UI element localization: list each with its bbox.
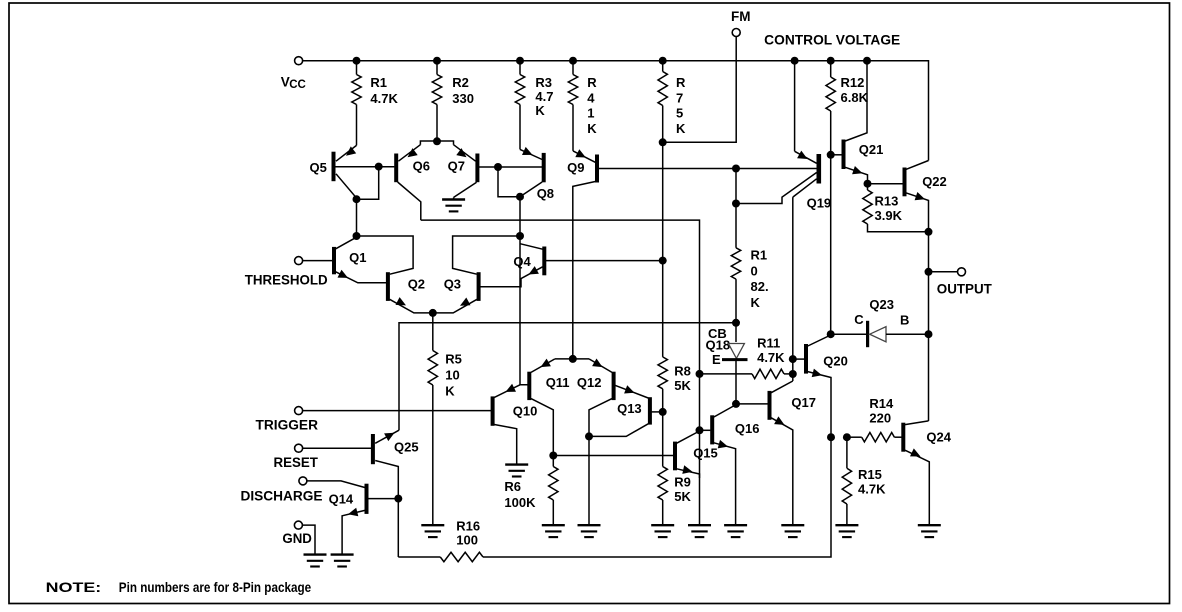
svg-text:4: 4 [587, 90, 595, 105]
svg-text:4.7K: 4.7K [757, 350, 785, 365]
svg-text:K: K [445, 384, 455, 399]
ground Q15/Q6-column [688, 525, 711, 537]
resistor R10 [731, 165, 768, 343]
transistor Q24 [901, 421, 951, 525]
resistor R12 [826, 57, 869, 335]
svg-text:100K: 100K [504, 495, 536, 510]
svg-text:Q10: Q10 [513, 404, 538, 419]
transistor Q21 [831, 57, 884, 184]
ground R5 [421, 525, 444, 537]
wire Q19 collector column [789, 197, 797, 381]
svg-text:K: K [587, 121, 597, 136]
svg-text:R: R [676, 75, 686, 90]
svg-text:100: 100 [456, 532, 478, 547]
resistor R4 [568, 57, 597, 151]
svg-text:K: K [535, 103, 545, 118]
transistor Q19 [736, 57, 831, 211]
svg-text:R9: R9 [674, 474, 691, 489]
svg-text:Q5: Q5 [310, 160, 327, 175]
transistor Q25 [371, 430, 419, 557]
resistor R8 [658, 261, 692, 416]
svg-text:B: B [900, 313, 909, 328]
svg-text:Q6: Q6 [413, 159, 430, 174]
svg-text:Q1: Q1 [349, 250, 366, 265]
node R2-Q6-Q7 [420, 137, 453, 145]
svg-text:CONTROL VOLTAGE: CONTROL VOLTAGE [764, 33, 900, 48]
ground Q17 [781, 525, 804, 537]
svg-text:6.8K: 6.8K [841, 90, 869, 105]
svg-text:R15: R15 [858, 467, 882, 482]
wire Q7-Q8 base link [494, 163, 524, 201]
svg-text:Q17: Q17 [791, 395, 816, 410]
svg-text:5K: 5K [674, 489, 691, 504]
resistor R1 [352, 57, 399, 146]
node Q11-Q12 emitters [555, 355, 589, 363]
transistor Q11 [527, 359, 569, 456]
svg-text:R5: R5 [445, 351, 462, 366]
svg-text:4.7K: 4.7K [858, 481, 886, 496]
transistor Q20 [793, 335, 848, 437]
svg-text:R8: R8 [674, 364, 691, 379]
ground Q16 [724, 525, 747, 537]
label CONTROL VOLTAGE [764, 33, 900, 48]
wire Q8 emitter column [516, 197, 528, 385]
terminal RESET [274, 444, 372, 470]
resistor R6 [504, 452, 558, 526]
resistor R5 [428, 313, 462, 525]
svg-text:R1: R1 [751, 247, 768, 262]
svg-text:Q21: Q21 [859, 142, 884, 157]
svg-text:R2: R2 [452, 75, 469, 90]
svg-text:Q16: Q16 [735, 421, 760, 436]
svg-text:DISCHARGE: DISCHARGE [241, 489, 323, 504]
svg-text:Q25: Q25 [394, 440, 419, 455]
svg-text:1: 1 [587, 106, 594, 121]
ground Q24 [918, 525, 941, 537]
svg-text:FM: FM [731, 9, 751, 24]
svg-text:Q4: Q4 [513, 254, 531, 269]
node Q16 collector / Q17 base [732, 400, 768, 408]
svg-text:Q19: Q19 [807, 196, 832, 211]
transistor Q14 [329, 484, 403, 555]
wire Q12 collector to ground column [588, 436, 590, 525]
svg-text:220: 220 [869, 411, 891, 426]
ground R6 [542, 525, 565, 537]
svg-text:R3: R3 [535, 75, 552, 90]
transistor Q15 [673, 431, 718, 478]
terminal TRIGGER [256, 407, 492, 433]
ground Q10 [505, 465, 528, 477]
svg-text:82.: 82. [751, 279, 769, 294]
terminal FM [663, 9, 751, 142]
svg-text:0: 0 [751, 263, 758, 278]
svg-text:CC: CC [289, 79, 306, 91]
transistor Q1 [332, 237, 386, 283]
svg-text:Q2: Q2 [408, 277, 425, 292]
svg-text:4.7K: 4.7K [370, 91, 398, 106]
svg-text:Q18: Q18 [706, 337, 731, 352]
terminal GND [282, 521, 315, 555]
ground GND terminal [304, 555, 327, 567]
svg-text:R11: R11 [757, 336, 780, 351]
resistor R14 [827, 396, 902, 442]
transistor Q12 [577, 359, 616, 437]
svg-text:Q13: Q13 [617, 401, 642, 416]
svg-text:R: R [587, 75, 597, 90]
ground Q12 column [578, 525, 601, 537]
svg-text:Q14: Q14 [329, 492, 354, 507]
svg-text:THRESHOLD: THRESHOLD [245, 273, 328, 288]
svg-text:Q23: Q23 [869, 297, 894, 312]
svg-text:Pin numbers are for 8-Pin pack: Pin numbers are for 8-Pin package [119, 580, 312, 595]
resistor R7 [658, 57, 686, 261]
transistor Q8 [520, 147, 554, 201]
svg-text:Q7: Q7 [448, 159, 465, 174]
transistor Q17 [768, 381, 816, 525]
terminal THRESHOLD [245, 257, 333, 288]
transistor Q10 [491, 384, 538, 465]
svg-text:Q15: Q15 [693, 446, 718, 461]
node Q15 collector / Q16 base [696, 426, 711, 434]
transistor Q2 [386, 272, 433, 313]
wire bottom rail [398, 437, 831, 557]
svg-text:R13: R13 [875, 194, 899, 209]
terminal DISCHARGE [241, 477, 365, 504]
svg-text:330: 330 [452, 91, 474, 106]
transistor Q13 [585, 385, 663, 440]
node Q2-Q3 emitters [429, 309, 437, 317]
transistor Q6 [394, 145, 430, 220]
transistor Q7 [448, 145, 543, 198]
svg-text:RESET: RESET [274, 455, 319, 470]
wire Q6 collector to lower-right column [421, 220, 700, 525]
transistor Q5 [310, 145, 395, 236]
svg-text:R12: R12 [841, 75, 865, 90]
resistor R9 [658, 412, 692, 525]
svg-text:E: E [712, 352, 721, 367]
svg-text:5: 5 [676, 106, 683, 121]
svg-text:TRIGGER: TRIGGER [256, 418, 319, 433]
note text [46, 580, 312, 595]
transistor Q3 [433, 236, 520, 313]
wire Q5col to Q1/Q2 collectors [353, 232, 414, 274]
svg-text:Q8: Q8 [537, 186, 554, 201]
svg-text:NOTE:: NOTE: [46, 580, 101, 595]
diode-connected Q18 (CB-E) [706, 326, 748, 404]
transistor Q16 [710, 405, 759, 526]
svg-text:Q12: Q12 [577, 375, 602, 390]
svg-text:Q20: Q20 [823, 354, 848, 369]
svg-text:C: C [854, 312, 864, 327]
svg-text:4.7: 4.7 [535, 89, 553, 104]
svg-text:Q22: Q22 [922, 174, 947, 189]
svg-text:K: K [676, 121, 686, 136]
ground R15 [835, 525, 858, 537]
resistor R13 [863, 180, 933, 236]
wire R6 to Q15 base [553, 455, 673, 457]
svg-text:10: 10 [445, 368, 459, 383]
Vcc terminal [281, 57, 306, 91]
svg-text:Q11: Q11 [546, 375, 570, 390]
ground Q7 collector [442, 197, 465, 211]
ground Q14 [331, 555, 354, 567]
resistor R2 [432, 57, 474, 141]
resistor R11 [696, 336, 793, 379]
svg-text:K: K [751, 295, 761, 310]
svg-text:7: 7 [676, 90, 683, 105]
transistor Q22 [868, 161, 947, 422]
wire Vcc rail [303, 61, 929, 161]
wire Q5 collector-base loop [353, 163, 383, 204]
transistor Q9 [567, 149, 817, 359]
ground R9 [651, 525, 674, 537]
svg-text:5K: 5K [674, 378, 691, 393]
svg-text:Q9: Q9 [567, 160, 584, 175]
transistor Q4 [480, 244, 666, 287]
diode Q23 [827, 297, 933, 347]
svg-text:3.9K: 3.9K [875, 208, 903, 223]
resistor R15 [842, 437, 886, 525]
resistor R16 [440, 519, 483, 562]
svg-text:R14: R14 [869, 396, 894, 411]
svg-text:OUTPUT: OUTPUT [937, 281, 993, 296]
wire comparator output node [399, 323, 736, 430]
svg-text:R1: R1 [370, 75, 387, 90]
svg-text:GND: GND [282, 531, 312, 546]
terminal OUTPUT [925, 268, 993, 297]
resistor R3 [515, 57, 553, 150]
svg-text:R6: R6 [504, 479, 521, 494]
svg-text:Q3: Q3 [444, 277, 461, 292]
svg-text:Q24: Q24 [926, 429, 951, 444]
